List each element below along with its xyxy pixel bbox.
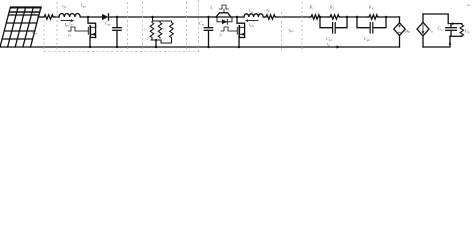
- diode D1: [102, 14, 109, 20]
- svg-text:R3: R3: [368, 5, 374, 11]
- svg-text:r1: r1: [144, 28, 147, 33]
- resistor R_L vertical: [460, 24, 464, 37]
- svg-text:ipcc: ipcc: [289, 27, 295, 33]
- gate wire Q2: [231, 30, 237, 32]
- PV array panel: [0, 7, 41, 47]
- current arrow I_pv: [61, 19, 74, 22]
- svg-text:r2: r2: [163, 28, 166, 33]
- up arrow on right leg: [449, 41, 452, 44]
- source V_g diamond: [394, 23, 406, 36]
- node C_in top: [207, 16, 209, 18]
- svg-text:R2: R2: [329, 5, 335, 11]
- resistor R_2: [329, 15, 340, 19]
- svg-text:Lpv: Lpv: [80, 3, 87, 9]
- rail current arrow i_g: [337, 46, 341, 49]
- dashed section separators: [44, 0, 302, 52]
- capacitor C_in: [204, 17, 212, 47]
- capacitor C_dc: [113, 17, 121, 47]
- capacitor C_1 branch: [320, 17, 347, 33]
- wire: [263, 16, 265, 18]
- diode loop Q3: [217, 17, 232, 22]
- inductor L_inv: [244, 14, 263, 17]
- svg-text:rg: rg: [267, 7, 271, 13]
- svg-text:io: io: [430, 28, 433, 34]
- gate pulse P1: [68, 27, 78, 31]
- gate wire Q1: [78, 30, 88, 32]
- diode D3: [222, 19, 227, 24]
- arrow into node: [448, 22, 455, 25]
- right leg down: [399, 17, 401, 23]
- transistor Q1: [88, 26, 95, 38]
- svg-text:R1: R1: [309, 5, 315, 11]
- Q1 source to rail: [90, 38, 96, 48]
- svg-text:ω: ω: [467, 3, 470, 7]
- svg-text:iinv: iinv: [249, 22, 255, 28]
- inductor L_pv: [59, 13, 80, 17]
- resistor r_3: [170, 22, 174, 39]
- svg-text:Cg2: Cg2: [364, 36, 370, 42]
- source leg wire: [422, 14, 424, 22]
- resistor r_2: [158, 22, 162, 39]
- wire: [276, 16, 310, 18]
- resistor R_3: [368, 15, 379, 19]
- svg-text:di: di: [210, 6, 213, 11]
- transistor Q2 drain lead: [237, 17, 245, 27]
- transistor Q1 drain lead: [88, 17, 96, 27]
- resistor R_1: [310, 15, 321, 19]
- svg-text:μi: μi: [220, 33, 223, 38]
- top bar of C||R: [451, 23, 462, 25]
- Q2 source to rail: [239, 38, 245, 48]
- damping bottom bars: [151, 38, 172, 43]
- damping drop to rail: [155, 40, 157, 47]
- svg-text:μb: μb: [68, 33, 72, 38]
- node cap cell 1 left: [319, 16, 321, 18]
- wire: [321, 16, 330, 18]
- current source diamond: [417, 22, 429, 36]
- wire: [80, 16, 102, 18]
- node damping network top: [151, 16, 153, 18]
- node A: [87, 16, 89, 18]
- Q3 gate stub: [223, 9, 225, 13]
- gate pulse P3: [220, 5, 229, 9]
- plus terminal mark: [33, 13, 35, 15]
- capacitor C_b: [446, 24, 457, 37]
- svg-text:Cin: Cin: [199, 21, 205, 27]
- wire: [340, 16, 368, 18]
- wire top left: [38, 16, 43, 18]
- capacitor C_2 branch: [357, 17, 386, 33]
- wire: [55, 16, 60, 18]
- svg-text:dpv: dpv: [69, 22, 74, 27]
- svg-text:rpv: rpv: [62, 3, 67, 9]
- transistor Q3 bump on wire: [216, 13, 231, 17]
- top wire middle: [109, 16, 245, 18]
- top rail: [423, 14, 448, 24]
- svg-text:UP: UP: [465, 29, 470, 35]
- svg-text:Cdc: Cdc: [105, 21, 111, 27]
- wire to corner: [379, 16, 400, 18]
- node B: [236, 16, 238, 18]
- svg-text:Lg: Lg: [248, 8, 253, 14]
- resistor r_1: [150, 22, 154, 39]
- node C_dc top: [116, 16, 118, 18]
- resistor r_g: [265, 15, 276, 19]
- resistor r_pv: [43, 15, 55, 19]
- bottom bar of C||R: [450, 35, 462, 37]
- svg-text:Cb: Cb: [438, 26, 443, 32]
- gate pulse P2: [221, 27, 231, 31]
- node cap cell 2 left: [356, 16, 358, 18]
- bottom rail: [31, 46, 400, 48]
- current arrow i_inv: [245, 19, 258, 22]
- right circuit bottom rail: [423, 36, 450, 47]
- transistor Q2: [237, 26, 244, 38]
- damping network top bar: [153, 17, 172, 21]
